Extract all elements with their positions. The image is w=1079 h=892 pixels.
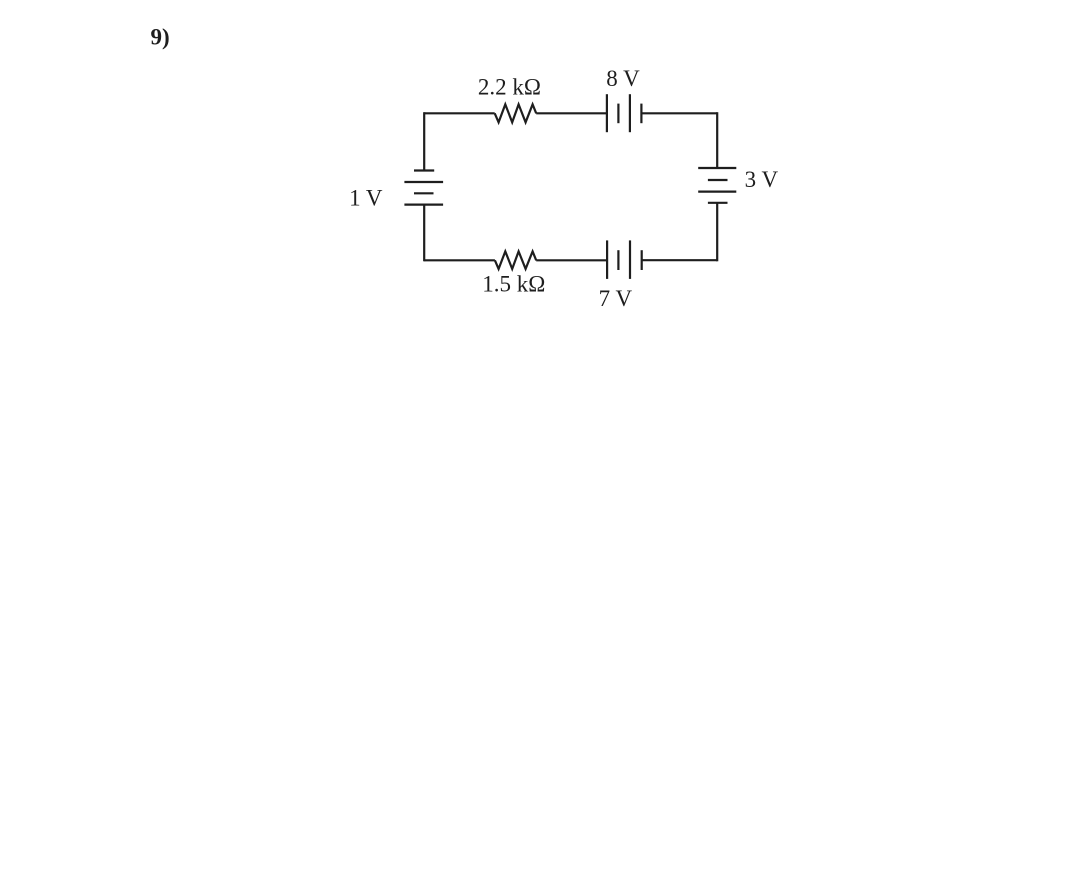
svg-text:8 V: 8 V <box>606 66 640 91</box>
svg-text:7 V: 7 V <box>599 286 633 311</box>
svg-text:1 V: 1 V <box>349 185 383 210</box>
svg-text:9): 9) <box>151 25 170 50</box>
svg-text:3 V: 3 V <box>745 167 779 192</box>
svg-text:1.5 kΩ: 1.5 kΩ <box>482 272 545 297</box>
svg-text:2.2 kΩ: 2.2 kΩ <box>478 74 541 99</box>
